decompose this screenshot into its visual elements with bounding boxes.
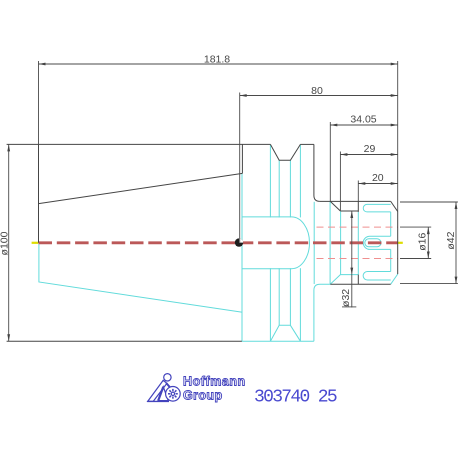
- ø32 text shelf: [342, 306, 356, 308]
- wire: vertical at taper big end: [241, 173, 243, 341]
- svg-text:Hoffmann: Hoffmann: [183, 375, 246, 389]
- wire: neck silhouette verticals: [313, 202, 315, 284]
- ext lines ø16: [400, 226, 431, 228]
- centerline (red dashed): [39, 241, 398, 244]
- svg-text:80: 80: [311, 85, 323, 97]
- logo wheel: [166, 387, 181, 402]
- wire: lower taper mirror: [39, 243, 243, 312]
- wire: neck/nut top: [320, 200, 391, 202]
- dimension texts: [0, 54, 457, 307]
- ext line x=330.3: [329, 122, 331, 201]
- arrows ø16: [427, 227, 430, 234]
- svg-text:34.05: 34.05: [350, 114, 376, 126]
- wire: mirrored flange right face + fillet: [314, 284, 330, 341]
- wire: envelope top: [7, 143, 271, 145]
- wire: slot connector verticals: [390, 212, 392, 236]
- phantom line bore top: [317, 226, 398, 228]
- ext line x=358.3: [357, 181, 359, 202]
- nut slot top: [363, 204, 390, 212]
- wire: nut left face (hidden part): [357, 212, 359, 275]
- svg-text:20: 20: [372, 172, 384, 184]
- logo wordmark: [183, 375, 246, 403]
- svg-text:ø42: ø42: [445, 231, 457, 249]
- wire: nut back face lower: [357, 275, 359, 285]
- nut front chamfer: [391, 201, 398, 211]
- wire: flange silhouette verticals upper: [269, 144, 271, 217]
- logo inner triangle: [158, 387, 168, 401]
- dim line 20: [358, 183, 397, 185]
- wire: bottom envelope (cyan part): [242, 340, 314, 342]
- nut slot middle inner: [365, 239, 381, 247]
- ext line x=239.7: [239, 93, 241, 243]
- logo head circle: [164, 374, 171, 381]
- dim line ø16: [427, 227, 429, 258]
- ext line x=397.7: [397, 61, 399, 212]
- dim line ø32: [351, 211, 353, 308]
- cavity (internal bore, stadium shape): [242, 217, 310, 269]
- gauge point dot (quadrant symbol): [235, 238, 243, 246]
- dim line 80: [240, 95, 398, 97]
- centerline yellow end dash right: [398, 242, 403, 244]
- arrows 20: [358, 182, 365, 185]
- phantom line bore bottom: [317, 258, 398, 260]
- arrows 181.8: [39, 63, 46, 66]
- arrows 80: [240, 94, 247, 97]
- V-groove: [270, 144, 300, 160]
- wire: mirrored V-groove: [270, 325, 300, 341]
- svg-text:ø32: ø32: [340, 289, 352, 307]
- dim line 29: [340, 154, 397, 156]
- arrowheads: [7, 63, 457, 342]
- wire: groove bottom: [340, 210, 358, 212]
- ext lines ø42: [400, 201, 458, 203]
- logo arm link: [166, 383, 171, 389]
- wire: nut/neck bottom: [330, 283, 390, 285]
- svg-text:181.8: 181.8: [204, 54, 230, 66]
- wire: flange silhouette verticals lower: [269, 268, 271, 341]
- wire: top after groove: [300, 143, 314, 145]
- wire: nose face: [397, 212, 399, 275]
- arrows ø42: [455, 202, 458, 209]
- wire: nut back face visible part: [357, 201, 359, 212]
- arrows ø100: [7, 144, 10, 151]
- svg-text:303740 25: 303740 25: [254, 388, 337, 408]
- centerline yellow end dash left: [32, 242, 39, 244]
- arrows ø32: [350, 211, 353, 218]
- logo baseline: [147, 400, 169, 402]
- dim line ø42: [455, 202, 457, 284]
- ext line x=340.4: [339, 152, 341, 212]
- flange right face + fillet: [314, 144, 320, 201]
- wire: taper big end face: [241, 144, 243, 173]
- chamfer to groove: [330, 201, 340, 211]
- wire: left face ø100: [38, 144, 40, 242]
- svg-text:29: 29: [364, 143, 376, 155]
- dim line ø100: [8, 144, 10, 341]
- dim line 181.8: [39, 63, 398, 65]
- nut slot bottom: [363, 272, 391, 281]
- svg-text:ø100: ø100: [0, 231, 10, 255]
- wire: nut lower chamfer mirror: [391, 274, 398, 284]
- logo wheel star: [171, 392, 174, 395]
- svg-text:Group: Group: [183, 389, 223, 403]
- ext line x=38.5: [38, 61, 40, 144]
- nut slot middle: [363, 236, 391, 249]
- svg-text:ø16: ø16: [416, 232, 428, 250]
- wire: envelope bottom (black part): [7, 340, 242, 342]
- wire: mirrored chamfer + groove: [330, 275, 358, 285]
- taper top edge: [39, 173, 243, 203]
- logo leg (outlined slant): [148, 380, 167, 401]
- arrows 34.05: [330, 124, 337, 127]
- dim line 34.05: [330, 124, 397, 126]
- arrows 29: [340, 153, 347, 156]
